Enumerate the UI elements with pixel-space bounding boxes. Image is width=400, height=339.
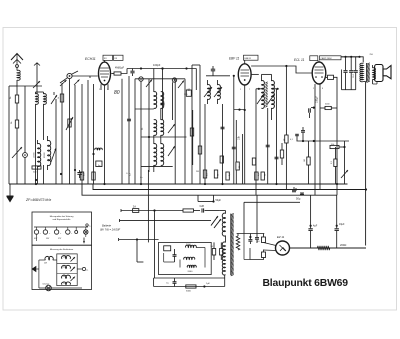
second bus wire [135, 78, 185, 80]
bottom wire box2 [39, 287, 82, 289]
IF T2 core [265, 82, 267, 107]
wire tone bottom [342, 89, 356, 91]
filter cap 16uF [336, 225, 338, 227]
wire vertical x148 [147, 170, 149, 242]
svg-text:80: 80 [114, 90, 120, 96]
ladder bump 1 [62, 256, 71, 259]
svg-text:4µF: 4µF [313, 225, 318, 228]
wire vertical x222 [222, 104, 224, 184]
resistor R32 [220, 156, 223, 163]
U1 pin wires [100, 84, 102, 90]
test box1 wire [34, 226, 84, 228]
resistor R15 [261, 172, 264, 180]
wire plate to top bus [111, 73, 114, 75]
svg-text:0+: 0+ [86, 270, 88, 272]
tube U1 ECH11 envelope [99, 62, 111, 85]
resistor R11 [214, 170, 217, 178]
svg-text:und Reparaturhilfe: und Reparaturhilfe [53, 218, 72, 221]
bottom wire box1 [36, 234, 38, 241]
resistor R23 [212, 249, 215, 256]
wire bus3 corner [244, 201, 300, 203]
resistor R12 [226, 172, 229, 180]
ECL11 label box 2 [320, 56, 342, 60]
resistor R6 [80, 172, 83, 180]
osc link wire [135, 108, 154, 110]
junction [60, 173, 62, 175]
svg-text:50: 50 [63, 276, 65, 278]
wire vertical x196 [195, 69, 197, 91]
svg-text:100pF: 100pF [153, 63, 161, 67]
IF transformer T1 coil a [208, 85, 211, 100]
wire vertical x154 [153, 69, 155, 93]
coil L9 [184, 257, 195, 259]
wire vertical x56 [55, 99, 57, 184]
svg-text:20k: 20k [63, 257, 66, 259]
trimmer capacitor arrow [51, 95, 57, 104]
capacitor C50u b [301, 193, 303, 196]
potentiometer R5 [68, 119, 71, 127]
coil L10 [187, 265, 196, 267]
capacitor C4 [79, 170, 81, 172]
wire top right [84, 226, 88, 228]
capacitor C22 [275, 156, 279, 158]
switch contact arrows [60, 80, 67, 86]
filter cap 4uF [310, 225, 312, 227]
rectifier input wire [237, 233, 265, 235]
resistor R9 [186, 90, 191, 96]
capacitor C50u a [295, 188, 297, 190]
capacitor C17 [302, 127, 304, 130]
svg-text:50µ: 50µ [296, 197, 301, 201]
wire EBF plate top [251, 66, 312, 73]
coil L6a [154, 120, 157, 136]
svg-text:16µF: 16µF [339, 223, 345, 226]
battery line 2 [120, 219, 212, 221]
svg-text:20000: 20000 [44, 152, 46, 158]
resistor R13 [236, 162, 239, 170]
choke resistor R29 [317, 246, 329, 250]
wire vertical x242 [242, 134, 244, 184]
resistor R22 [183, 209, 194, 212]
battery line 3 [119, 239, 159, 241]
output transformer T3 primary [360, 63, 364, 81]
vibrator switch arrows [211, 216, 218, 226]
arrow down [83, 238, 85, 244]
socket circle 1 [34, 230, 38, 234]
U3 plate wire to C16 [326, 77, 328, 79]
svg-text:EZ 11: EZ 11 [277, 235, 285, 239]
wire vertical x271 [271, 108, 273, 120]
osc coil L5a [154, 92, 157, 109]
oscillator padder trimmer [23, 153, 28, 158]
B+ output wire [290, 247, 367, 249]
coil L6b [161, 120, 164, 136]
svg-text:IIII: IIII [104, 58, 107, 60]
wire left drop to plate node [341, 70, 343, 90]
chassis bus 2 [93, 184, 366, 190]
resistor R8 [114, 72, 121, 75]
svg-text:0+: 0+ [89, 226, 91, 228]
power transformer T4 primary [222, 213, 225, 236]
resistor R4 [60, 94, 63, 102]
IF T1 variable arrows [204, 87, 212, 97]
resistor R27 [262, 237, 266, 243]
wire vertical x276 [276, 89, 278, 184]
diode/contact arrow [33, 81, 40, 88]
T4 core [231, 213, 234, 276]
wire [37, 170, 39, 184]
variable core arrow [51, 148, 56, 162]
svg-text:7: 7 [107, 89, 108, 91]
junction [161, 67, 163, 69]
U3 cathode wires [314, 84, 316, 195]
capacitor C21 [266, 144, 270, 146]
wire vertical x141 [140, 81, 142, 184]
aux antenna input [34, 63, 40, 66]
wire vertical x137 [136, 240, 138, 263]
ECL11 label box 1 [310, 56, 318, 61]
svg-text:Messpunkte bei Störung: Messpunkte bei Störung [50, 215, 74, 218]
socket circle 5 [75, 231, 78, 234]
U4 cathode marks [280, 245, 286, 251]
battery line 1 [121, 210, 183, 212]
wire vertical x175 [174, 79, 176, 184]
wire vertical x162 [162, 69, 164, 121]
tube U2 EBF11 envelope [238, 64, 251, 85]
EZ11 anode wires [263, 234, 265, 238]
coil L7b [161, 143, 164, 165]
capacitor C16 [328, 75, 334, 79]
svg-text:2: 2 [240, 89, 241, 91]
bottom wire 1 [154, 277, 225, 279]
svg-text:0,2: 0,2 [63, 282, 65, 284]
osc coil L5b [161, 92, 164, 109]
junction dots misc [233, 75, 235, 77]
wire vertical x75 [74, 85, 76, 184]
wire vertical x82 [81, 84, 83, 184]
svg-text:C₁: C₁ [126, 173, 128, 175]
junction dots right bus [336, 183, 338, 185]
rectifier tube U4 EZ11 [276, 241, 290, 255]
wire vertical x88 [87, 80, 89, 184]
U2 top pin [244, 60, 246, 63]
tube ECH11 label box a [103, 55, 113, 60]
grid network top wire [297, 140, 350, 142]
wire vertical x172 [172, 82, 174, 120]
svg-text:2000: 2000 [188, 271, 194, 273]
wire vertical x149 [148, 79, 150, 172]
svg-text:Urlampe: Urlampe [43, 284, 50, 286]
wire vertical x135 [134, 79, 136, 184]
svg-text:2A: 2A [133, 204, 136, 208]
wire vertical x193 [192, 110, 194, 165]
svg-text:C₁ₐ: C₁ₐ [140, 177, 143, 179]
wire vertical x154 [154, 211, 156, 279]
U2 cathode wire [244, 85, 246, 184]
junction [136, 238, 138, 240]
resistor R1 [16, 86, 18, 95]
trimmer arrow [146, 80, 152, 88]
svg-text:1µF: 1µF [206, 283, 210, 285]
wire to transformer [220, 210, 226, 212]
ladder rung 1 [57, 263, 77, 265]
junction dots bus [140, 183, 142, 185]
wire top to transformer [341, 57, 363, 63]
tone capacitor C11 [350, 57, 352, 71]
resistor R33 [252, 158, 255, 165]
resistor R16 [285, 135, 288, 143]
wire grid bottom [300, 183, 348, 185]
svg-text:8: 8 [322, 88, 323, 90]
capacitor C7 [132, 69, 134, 71]
potentiometer arrow P1 [12, 147, 22, 158]
small circle right [82, 267, 85, 270]
variable arrow [168, 124, 175, 133]
svg-text:50µF: 50µF [216, 199, 222, 202]
T4 secondary [222, 242, 225, 275]
wire grid line [206, 75, 230, 77]
T3 core [366, 63, 368, 82]
filter box [159, 242, 212, 274]
box component [164, 246, 171, 251]
svg-text:(6V 7A) = 2A/20F: (6V 7A) = 2A/20F [100, 228, 121, 232]
socket circle 2 [43, 230, 47, 234]
coil L4 [48, 140, 51, 165]
socket circle 3 [54, 230, 58, 234]
junction [153, 209, 155, 211]
svg-text:10000: 10000 [34, 152, 36, 158]
osc block bottom wire [141, 165, 173, 167]
svg-text:ECH11: ECH11 [85, 57, 96, 61]
tube ECH11 label box b [114, 55, 124, 60]
junction [203, 285, 205, 287]
wire antenna to node [17, 85, 42, 87]
resistor R3 [32, 166, 41, 169]
svg-text:Batterie: Batterie [102, 224, 111, 228]
svg-text:ECL 11: ECL 11 [294, 58, 305, 62]
resistor R20 [334, 159, 337, 167]
svg-text:CARP 28GK: CARP 28GK [321, 57, 333, 60]
wire vertical x257 [256, 195, 258, 237]
wire left drop [8, 86, 10, 184]
capacitor C12 [173, 254, 177, 256]
resistor R14 [255, 172, 258, 180]
capacitor C14 [249, 236, 251, 238]
tone capacitor C10 [345, 57, 347, 71]
wire vertical x69 [69, 79, 71, 90]
junction dots on top bus [140, 67, 142, 69]
bulb lamp [46, 285, 52, 291]
wire vertical x236 [235, 120, 237, 162]
svg-text:IIII: IIII [115, 58, 118, 60]
tube EBF11 label box [244, 55, 259, 60]
top bus wire [127, 68, 196, 70]
capacitor C18 [296, 136, 298, 141]
bottom wire 2 [154, 286, 225, 288]
U2 electrodes [241, 69, 250, 71]
cathode tie wire [234, 109, 245, 111]
resistor R17 [280, 150, 283, 158]
resistor R21 [330, 145, 339, 148]
capacitor C20 [232, 146, 236, 148]
wire switch to ECH11 grid [72, 75, 98, 77]
svg-text:4M(6)µF: 4M(6)µF [115, 67, 125, 70]
socket stubs [36, 227, 38, 230]
svg-text:1k: 1k [58, 97, 60, 99]
wire plate to IF2 [252, 73, 259, 75]
svg-text:2000: 2000 [186, 244, 192, 246]
electrolytic capacitor C6 [96, 161, 102, 167]
socket circle 4 [66, 230, 70, 234]
svg-text:2: 2 [313, 88, 314, 90]
variable arrow [168, 146, 175, 156]
wire vertical x200 [199, 65, 201, 184]
resistor R7 [92, 172, 95, 180]
junction 50uF [212, 200, 214, 202]
svg-text:2: 2 [99, 89, 100, 91]
resistor R25 [186, 285, 196, 288]
ladder bump 3 [62, 275, 71, 278]
resistor R2 [15, 120, 18, 128]
box2 left arrow [32, 266, 37, 272]
svg-text:EBF 11: EBF 11 [229, 57, 240, 61]
junction [35, 179, 37, 181]
IF transformer T1 coil b [218, 85, 221, 100]
svg-text:209: 209 [44, 263, 47, 265]
U3 top pin [318, 61, 320, 62]
svg-text:7: 7 [249, 89, 250, 91]
wire [53, 92, 55, 95]
trimmer cap T2 [172, 78, 176, 82]
tone capacitor C12b [355, 57, 357, 71]
svg-text:ZF=468/473 kHz: ZF=468/473 kHz [25, 198, 51, 202]
ground symbol [9, 184, 11, 196]
osc block top wire [141, 136, 187, 138]
wire vertical x233 [233, 76, 235, 184]
IF transformer T2 coil b [272, 81, 275, 109]
coil L3 [38, 143, 41, 166]
svg-text:Blaupunkt 6BW69: Blaupunkt 6BW69 [263, 278, 349, 289]
wire vertical x93.5 [93, 84, 95, 184]
wire vertical x185 [184, 79, 186, 184]
test box 2 [32, 245, 92, 289]
svg-text:3000: 3000 [186, 291, 192, 293]
trimmer cap T1 [139, 77, 143, 81]
svg-text:Messung der Erdströme: Messung der Erdströme [50, 248, 74, 251]
resistor R24 [220, 249, 223, 256]
resistor R28 [262, 252, 266, 258]
input coil L2a [36, 94, 39, 105]
ladder bump 2 [62, 265, 71, 268]
B+ wire right [365, 82, 367, 246]
wire vertical x192 [191, 65, 193, 184]
antenna A1 [11, 54, 23, 61]
wire vertical x256 [255, 89, 257, 195]
capacitor C24 [127, 118, 131, 120]
U1 electrodes [100, 67, 109, 69]
test box 1 [32, 212, 92, 245]
ladder rung 2 [57, 273, 77, 275]
capacitor C23 [161, 102, 165, 104]
junction [313, 140, 315, 142]
svg-text:C28: C28 [200, 205, 205, 208]
IF transformer T2 coil a [262, 81, 265, 109]
svg-text:200Ω: 200Ω [340, 243, 346, 247]
chassis bus 1 [9, 183, 345, 185]
ladder bump 4 [62, 282, 71, 285]
capacitor C9 [311, 107, 314, 109]
svg-text:1M: 1M [304, 159, 306, 162]
wire vertical x44 [43, 165, 45, 184]
svg-text:C6-2: C6-2 [353, 74, 355, 78]
resistor R10 [203, 170, 206, 178]
tube U3 ECL11 envelope [312, 62, 326, 84]
resistor R30 [190, 128, 193, 136]
speaker wires [373, 83, 377, 85]
box2 right wire [77, 268, 82, 270]
small circle 0V [86, 224, 88, 226]
input coil L2b [44, 94, 47, 105]
svg-text:100µF: 100µF [316, 96, 319, 103]
svg-text:EBF11: EBF11 [245, 58, 252, 60]
svg-text:100: 100 [62, 266, 65, 268]
capacitor C8 [211, 68, 215, 70]
wire vertical x267 [267, 108, 269, 184]
fuse 2A [133, 209, 139, 213]
junction [343, 146, 345, 148]
wire vertical x205 [204, 104, 206, 184]
wire label to transformer [341, 56, 360, 58]
speaker LS1 [375, 65, 383, 82]
antenna coil L1 [16, 68, 18, 71]
band switch S1 [67, 73, 72, 78]
capacitor C28 [201, 208, 203, 212]
resistor R19 [307, 157, 310, 165]
trimmer arrow [178, 81, 184, 89]
resistor R31 [198, 146, 201, 154]
wire vertical x122 [121, 79, 123, 184]
coil L8 [185, 245, 196, 247]
box inner wires [163, 253, 165, 262]
U3 electrodes [315, 66, 324, 68]
resistor R18 [320, 107, 325, 109]
box2 left wire [38, 260, 40, 288]
T3 secondary [373, 68, 376, 80]
wire vertical x62 [61, 83, 63, 184]
svg-text:50k: 50k [331, 144, 334, 146]
resistor R26 zigzag [236, 236, 240, 250]
antenna lead-in insulator [16, 65, 19, 68]
junction [313, 107, 315, 109]
variable resistor arrow [341, 170, 348, 178]
wire vertical x129 [128, 76, 130, 184]
capacitor C5 [95, 148, 103, 150]
chassis bus 3 [82, 184, 337, 195]
wire vertical x287 [285, 66, 287, 135]
lamp circle [84, 230, 88, 234]
box2 top coil [39, 259, 46, 261]
IF T2 arrows [257, 94, 264, 104]
svg-text:2M: 2M [196, 171, 199, 173]
coil L7a [154, 143, 157, 165]
junction dots [258, 88, 260, 90]
capacitor C13 [173, 281, 177, 283]
capacitor C19 [221, 126, 225, 128]
ladder box [57, 254, 77, 286]
